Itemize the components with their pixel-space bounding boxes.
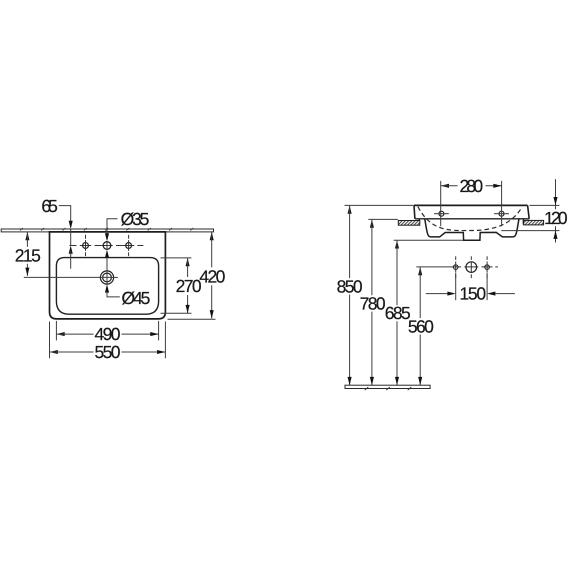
dimension 120 (right side) (501, 179, 568, 242)
left recess wall (418, 219, 420, 225)
basin right edge (528, 205, 530, 218)
floor bar ticks (365, 387, 412, 390)
inner bowl outline (plan) (56, 258, 158, 315)
basin left edge (413, 205, 416, 218)
right recess wall (522, 219, 524, 225)
svg-text:685: 685 (385, 303, 411, 323)
svg-text:120: 120 (544, 208, 568, 228)
dimension 780 (360, 219, 398, 385)
center tap hole (D35) (103, 242, 111, 250)
left wall bracket (hatched) (398, 221, 420, 226)
label D35 with leader (105, 209, 149, 271)
detail left hole (453, 256, 458, 278)
basin outer outline (plan) (50, 232, 166, 319)
tap hole detail: horizontal centerline (dash-dot) (450, 266, 498, 268)
dimension 65 (leader + outside arrows) (41, 196, 72, 269)
label D45 with leader (105, 284, 150, 308)
dimension 550 (horizontal) (50, 322, 166, 363)
dimension 560 (408, 267, 450, 385)
dimension 215 (vertical, left) (15, 232, 41, 276)
svg-text:Ø45: Ø45 (122, 288, 151, 308)
svg-text:270: 270 (176, 276, 202, 296)
dimension 685 (385, 240, 463, 385)
dimension 420 (vertical, right) (168, 232, 226, 319)
svg-text:215: 215 (15, 245, 41, 265)
right wall bracket (hatched) (524, 220, 544, 225)
bowl interior dashed curve (418, 207, 522, 231)
tap holes centerline (horizontal, dash-dot) (70, 245, 144, 247)
svg-text:420: 420 (199, 266, 225, 286)
svg-text:Ø35: Ø35 (121, 209, 150, 229)
wall bar (wall line behind basin, plan view) (1, 229, 213, 232)
svg-text:280: 280 (460, 176, 484, 196)
drain hole (D45) (100, 271, 113, 284)
left mounting hole (434, 211, 449, 216)
dimension 280 (between mounting holes) (441, 176, 502, 226)
floor bar (345, 385, 430, 388)
left tap hole (83, 235, 89, 256)
svg-text:550: 550 (95, 342, 121, 362)
svg-text:65: 65 (41, 196, 58, 216)
dimension 150 (tap hole spacing) (426, 273, 515, 304)
right mounting hole (494, 211, 509, 216)
svg-text:560: 560 (408, 316, 434, 336)
detail center hole (466, 256, 477, 278)
dimension 850 (height to rim) (337, 205, 414, 385)
dimension 270 (vertical, inside right) (161, 258, 202, 313)
basin top edge (414, 204, 528, 206)
svg-text:150: 150 (460, 284, 487, 304)
detail right hole (485, 256, 490, 278)
rim bottom line (415, 218, 529, 220)
drain horizontal centerline / 215 extension line (24, 276, 118, 278)
svg-text:780: 780 (360, 293, 386, 313)
bowl/apron outer profile (425, 219, 519, 240)
wall bar ticks (20, 228, 193, 231)
dimension 490 (horizontal) (56, 321, 158, 344)
right tap hole (126, 235, 132, 256)
